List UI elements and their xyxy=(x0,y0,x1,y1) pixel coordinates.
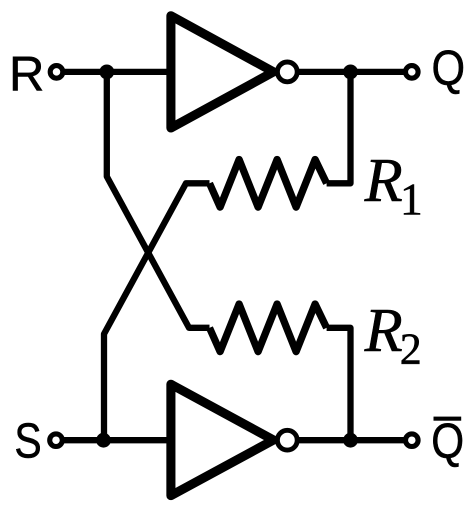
terminal Q xyxy=(406,66,419,79)
terminal S xyxy=(50,434,63,447)
inverter U1 (top) xyxy=(171,16,274,128)
inverter U2 (bottom) xyxy=(171,384,274,495)
svg-text:S: S xyxy=(14,415,41,469)
overbar of Qbar xyxy=(434,417,462,421)
svg-text:1: 1 xyxy=(400,174,423,225)
terminal R xyxy=(50,66,63,79)
junction dot at Q node xyxy=(343,65,358,80)
wire top inverter output to Q xyxy=(296,69,404,75)
svg-text:Q: Q xyxy=(432,41,466,95)
wire bottom inverter output to Qbar xyxy=(296,437,404,443)
junction dot at S node xyxy=(96,433,111,448)
junction dot at R node xyxy=(99,65,114,80)
resistor R1 xyxy=(210,160,327,208)
svg-text:Q: Q xyxy=(431,415,464,469)
resistor R2 xyxy=(210,304,327,352)
inverter U2 output bubble xyxy=(277,430,297,450)
inverter U1 output bubble xyxy=(277,62,297,82)
wire Q node down to R1 right lead xyxy=(327,72,351,183)
svg-text:R: R xyxy=(364,146,403,215)
terminal Qbar xyxy=(406,434,419,447)
wire R input xyxy=(63,69,172,75)
svg-text:R: R xyxy=(9,48,44,102)
svg-text:2: 2 xyxy=(400,325,422,374)
wire Qbar node up to R2 right lead xyxy=(327,328,351,440)
wire cross: R node down to R2 left lead xyxy=(107,72,210,328)
svg-text:R: R xyxy=(364,296,403,365)
wire S input xyxy=(63,437,172,443)
wire cross: R1 left lead down to S node xyxy=(104,183,210,440)
junction dot at Qbar node xyxy=(343,433,358,448)
